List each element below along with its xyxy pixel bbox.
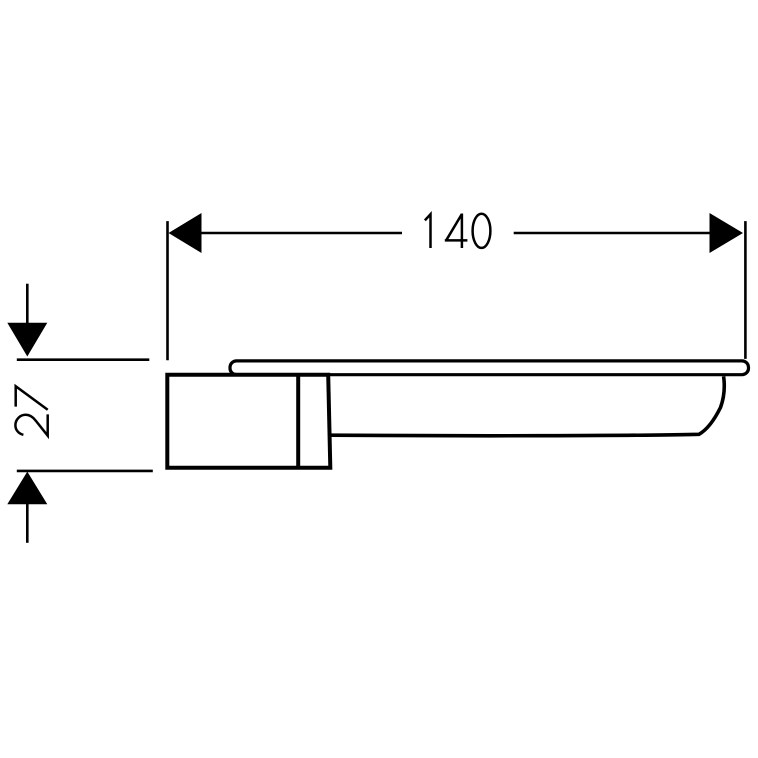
arrowhead up (27 dim bottom) — [7, 472, 47, 505]
shelf plate (top tray, rounded ends) — [230, 361, 749, 375]
extension line left (140 dim, wall plane) — [166, 221, 169, 360]
label 27 (rotated, digit 2 then 7 reading upward) — [15, 386, 47, 436]
label 140 (digit 4) — [445, 214, 468, 249]
label 140 (digit 0) — [473, 214, 491, 248]
extension line top (27 dim, shelf top plane) — [17, 358, 150, 361]
arrowhead right (points right) — [710, 213, 744, 253]
extension line right (140 dim) — [744, 221, 747, 359]
dimension line 140 left segment — [200, 232, 402, 235]
wall bracket outer rectangle — [167, 375, 330, 468]
arrowhead left (points left) — [169, 213, 202, 253]
wall bracket inner vertical line — [296, 375, 300, 468]
dimension line 27 top tail — [26, 284, 29, 324]
arrowhead down (27 dim top) — [7, 323, 47, 357]
dimension line 140 right segment — [514, 232, 710, 235]
extension line bottom (27 dim, bracket bottom plane) — [17, 470, 153, 473]
label 140 (digit 1) — [425, 214, 431, 248]
dimension line 27 bottom tail — [26, 504, 29, 543]
bowl profile (right wall and bottom) — [331, 376, 725, 435]
